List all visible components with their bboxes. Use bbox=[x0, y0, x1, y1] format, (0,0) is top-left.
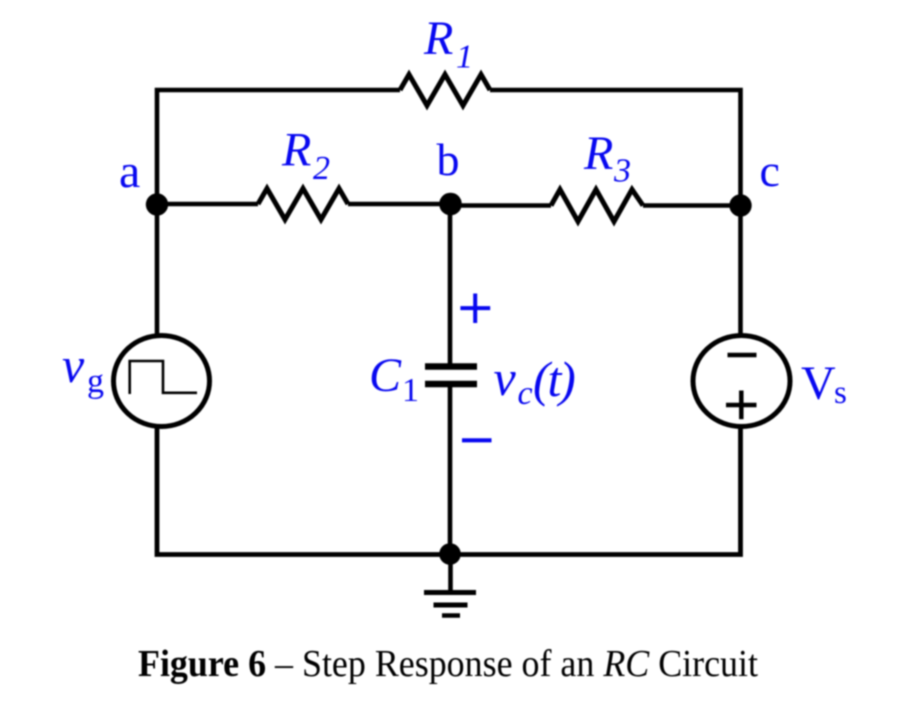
svg-text:g: g bbox=[87, 363, 104, 400]
svg-text:c: c bbox=[518, 375, 533, 412]
node b junction dot bbox=[439, 193, 462, 216]
ground node junction dot bbox=[439, 543, 461, 565]
label vc(t) bbox=[494, 350, 576, 412]
label C1 bbox=[369, 349, 419, 409]
svg-text:a: a bbox=[119, 145, 140, 198]
svg-text:v: v bbox=[62, 337, 85, 393]
wire: node b down to capacitor C1 bbox=[448, 204, 453, 364]
source vg (square-pulse voltage source) bbox=[114, 336, 210, 427]
svg-text:Figure 6 – Step Response of an: Figure 6 – Step Response of an RC Circui… bbox=[138, 643, 758, 685]
label R3 bbox=[583, 127, 631, 190]
svg-text:s: s bbox=[834, 375, 847, 411]
wire: node c down to source Vs bbox=[738, 204, 743, 336]
resistor R2 bbox=[258, 189, 348, 220]
resistor R1 bbox=[400, 75, 490, 106]
svg-text:1: 1 bbox=[402, 372, 419, 409]
svg-text:R: R bbox=[281, 124, 311, 177]
svg-text:1: 1 bbox=[456, 39, 473, 76]
svg-text:(t): (t) bbox=[533, 351, 575, 407]
svg-text:C: C bbox=[369, 349, 402, 402]
svg-text:V: V bbox=[801, 357, 836, 410]
node c junction dot bbox=[729, 194, 751, 216]
wire: node a to R2 bbox=[157, 202, 258, 207]
wire: R2 to node b bbox=[348, 202, 450, 207]
svg-text:R: R bbox=[423, 12, 453, 65]
wire: node a down to source vg bbox=[155, 204, 160, 336]
svg-text:R: R bbox=[583, 127, 613, 180]
wire: left vertical (node a up to top-left corner, across top to R1) bbox=[157, 90, 400, 206]
wire: capacitor C1 down to ground node bbox=[448, 386, 453, 555]
wire: source Vs down to bottom-right corner, bottom wire to ground node bbox=[450, 427, 741, 555]
svg-text:2: 2 bbox=[313, 150, 330, 187]
resistor R3 bbox=[551, 190, 643, 222]
node a junction dot bbox=[146, 193, 168, 215]
label R1 bbox=[423, 12, 473, 76]
wire: R3 to node c bbox=[643, 203, 741, 208]
wire: node b to R3 bbox=[450, 203, 551, 208]
capacitor C1 bbox=[425, 367, 477, 385]
label - (capacitor polarity) bbox=[462, 438, 492, 442]
svg-text:b: b bbox=[437, 134, 460, 185]
label + (capacitor polarity) bbox=[460, 294, 490, 324]
ground symbol bbox=[424, 554, 476, 616]
label Vs bbox=[801, 357, 847, 411]
svg-text:3: 3 bbox=[613, 153, 631, 190]
source Vs (DC voltage source) bbox=[693, 336, 790, 427]
wire: source vg down to bottom-left corner, bottom wire to ground node bbox=[157, 427, 450, 555]
svg-text:v: v bbox=[494, 350, 517, 406]
svg-text:c: c bbox=[760, 145, 780, 196]
wire: top right from R1 down to node c bbox=[490, 90, 741, 206]
label R2 bbox=[281, 124, 330, 188]
label vg bbox=[62, 337, 104, 400]
